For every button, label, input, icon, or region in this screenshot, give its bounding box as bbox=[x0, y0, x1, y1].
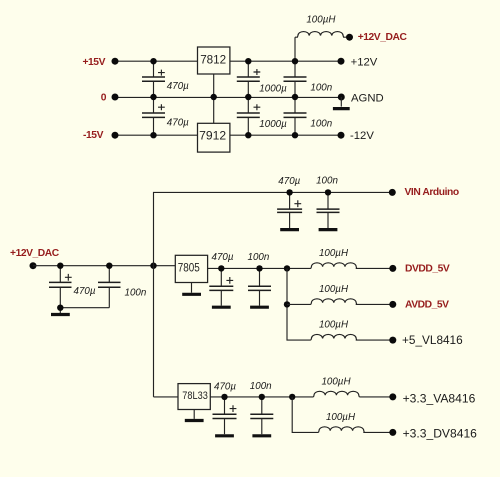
node VIN Arduino terminal bbox=[389, 189, 396, 196]
svg-text:470µ: 470µ bbox=[214, 381, 236, 392]
svg-text:100n: 100n bbox=[250, 381, 272, 392]
inductor L3 100uH (AVDD) bbox=[287, 284, 393, 304]
inductor L2 100uH (DVDD) bbox=[311, 248, 393, 268]
junction C6/-12V rail bbox=[292, 132, 298, 138]
junction C3/+12V rail bbox=[245, 58, 251, 64]
svg-text:100µH: 100µH bbox=[319, 320, 349, 331]
svg-text:+12V_DAC: +12V_DAC bbox=[10, 248, 60, 259]
svg-text:DVDD_5V: DVDD_5V bbox=[405, 264, 450, 275]
capacitor C5 100n (between +12V and 0) bbox=[284, 61, 333, 97]
junction U1-U2 pins/0 rail bbox=[211, 94, 217, 100]
capacitor C14 100n (78L33 out) bbox=[250, 381, 273, 434]
ground below C12 bbox=[250, 306, 269, 309]
wire input rail bbox=[33, 265, 175, 267]
svg-text:470µ: 470µ bbox=[212, 252, 234, 263]
wire 5V distribution trunk bbox=[287, 268, 311, 340]
svg-text:+15V: +15V bbox=[82, 57, 105, 68]
junction C14/3.3V rail bbox=[259, 394, 265, 400]
junction C9/VIN rail bbox=[286, 189, 292, 195]
ground below C10 bbox=[319, 228, 338, 231]
node -12V terminal bbox=[338, 132, 345, 139]
wire 7805 output rail bbox=[208, 267, 311, 269]
ground below C14 bbox=[252, 434, 271, 437]
svg-text:470µ: 470µ bbox=[167, 81, 189, 92]
node +12V_DAC terminal bbox=[346, 34, 353, 41]
regulator U1 7812 bbox=[198, 47, 230, 97]
junction C7-C8 ground node bbox=[57, 305, 63, 311]
junction C8/input rail bbox=[106, 263, 112, 269]
inductor L4 100uH (+5_VL) bbox=[311, 320, 393, 340]
junction L3/AVDD branch bbox=[284, 301, 290, 307]
capacitor C13 470u (78L33 out) bbox=[213, 381, 237, 434]
svg-text:1000µ: 1000µ bbox=[259, 119, 287, 130]
svg-text:100µH: 100µH bbox=[319, 284, 349, 295]
wire +12V rail right of 7812 bbox=[230, 60, 341, 62]
svg-text:100µH: 100µH bbox=[306, 14, 336, 25]
ground below C9 bbox=[280, 228, 299, 231]
svg-text:+12V_DAC: +12V_DAC bbox=[358, 32, 408, 43]
capacitor C8 100n bbox=[60, 266, 146, 308]
junction C5-C6/0 rail bbox=[292, 94, 298, 100]
junction C1-C2/0 rail bbox=[150, 94, 156, 100]
node +3.3_DV8416 terminal bbox=[389, 429, 396, 436]
svg-text:100n: 100n bbox=[316, 176, 338, 187]
node +15V terminal bbox=[112, 58, 119, 65]
capacitor C3 1000u (between +12V and 0) bbox=[237, 61, 287, 97]
junction C7/input rail bbox=[57, 263, 63, 269]
capacitor C9 470u (VIN rail) bbox=[277, 176, 302, 228]
svg-text:+3.3_VA8416: +3.3_VA8416 bbox=[403, 391, 476, 405]
capacitor C12 100n (7805 out) bbox=[248, 252, 272, 306]
svg-text:100µH: 100µH bbox=[319, 248, 349, 259]
svg-text:-15V: -15V bbox=[83, 130, 104, 141]
junction C10/VIN rail bbox=[325, 189, 331, 195]
ground below C11 bbox=[212, 306, 231, 309]
junction C11/5V rail bbox=[218, 265, 224, 271]
svg-text:78L33: 78L33 bbox=[182, 390, 208, 402]
regulator U4 78L33 bbox=[178, 384, 210, 419]
svg-text:7912: 7912 bbox=[199, 128, 226, 142]
junction C5-L1/+12V rail bbox=[292, 58, 298, 64]
wire 78L33 output rail bbox=[210, 396, 313, 398]
node +12V terminal bbox=[338, 58, 345, 65]
ground AGND bbox=[333, 97, 350, 109]
svg-text:100µH: 100µH bbox=[326, 412, 356, 423]
capacitor C7 470u bbox=[49, 266, 96, 313]
node AGND terminal bbox=[338, 94, 345, 101]
svg-text:1000µ: 1000µ bbox=[259, 83, 287, 94]
ground below C13 bbox=[215, 434, 234, 437]
wire +15V rail left bbox=[115, 60, 198, 62]
wire -12V rail right of 7912 bbox=[230, 134, 341, 136]
svg-text:470µ: 470µ bbox=[167, 117, 189, 128]
regulator U3 7805 bbox=[175, 255, 207, 292]
capacitor C6 100n (between 0 and -12V) bbox=[284, 97, 333, 135]
svg-text:470µ: 470µ bbox=[74, 286, 96, 297]
junction C3-C4/0 rail bbox=[245, 94, 251, 100]
svg-text:AVDD_5V: AVDD_5V bbox=[405, 300, 449, 311]
svg-text:100n: 100n bbox=[248, 252, 270, 263]
svg-text:100µH: 100µH bbox=[321, 377, 351, 388]
junction C1/+15V rail bbox=[150, 58, 156, 64]
svg-text:100n: 100n bbox=[310, 118, 332, 129]
svg-text:470µ: 470µ bbox=[278, 176, 300, 187]
svg-text:VIN Arduino: VIN Arduino bbox=[405, 187, 459, 198]
svg-text:+5_VL8416: +5_VL8416 bbox=[402, 333, 463, 347]
svg-text:+12V: +12V bbox=[351, 57, 378, 69]
capacitor C4 1000u (between 0 and -12V) bbox=[237, 97, 287, 135]
node 0 terminal bbox=[112, 94, 119, 101]
node +5_VL8416 terminal bbox=[389, 337, 396, 344]
svg-text:0: 0 bbox=[101, 93, 107, 104]
ground below 78L33 bbox=[185, 419, 204, 422]
svg-text:7812: 7812 bbox=[200, 53, 226, 67]
capacitor C2 470u (between 0 and -15V) bbox=[142, 97, 189, 135]
capacitor C1 470u (between +15V and 0) bbox=[142, 61, 189, 97]
wire 0/AGND rail bbox=[115, 96, 341, 98]
node -15V terminal bbox=[112, 132, 119, 139]
inductor L1 100uH bbox=[295, 14, 346, 61]
node DVDD_5V terminal bbox=[389, 265, 396, 272]
junction C12/5V rail bbox=[256, 265, 262, 271]
junction L5-trunk/3.3V rail bbox=[289, 394, 295, 400]
node +3.3_VA8416 terminal bbox=[389, 393, 396, 400]
wire main trunk vertical bbox=[154, 192, 393, 397]
svg-text:7805: 7805 bbox=[178, 261, 200, 275]
svg-text:AGND: AGND bbox=[351, 93, 384, 105]
svg-text:+3.3_DV8416: +3.3_DV8416 bbox=[403, 427, 478, 441]
junction trunk/input rail bbox=[150, 263, 156, 269]
node +12V_DAC input terminal bbox=[30, 262, 37, 269]
capacitor C10 100n (VIN rail) bbox=[316, 176, 339, 228]
inductor L6 100uH (+3.3_DV) bbox=[319, 412, 393, 432]
junction C4/-12V rail bbox=[245, 132, 251, 138]
inductor L5 100uH (+3.3_VA) bbox=[314, 377, 393, 397]
regulator U2 7912 bbox=[198, 97, 230, 152]
junction C13/3.3V rail bbox=[221, 394, 227, 400]
capacitor C11 470u (7805 out) bbox=[209, 252, 234, 306]
svg-text:-12V: -12V bbox=[350, 130, 374, 142]
wire 78L33 input bbox=[154, 396, 179, 398]
junction C2/-15V rail bbox=[150, 132, 156, 138]
svg-text:100n: 100n bbox=[310, 83, 332, 94]
ground below 7805 bbox=[182, 293, 201, 296]
wire 3.3V trunk bbox=[292, 397, 318, 433]
ground below C7 bbox=[51, 313, 70, 316]
junction L2-trunk/5V rail bbox=[284, 265, 290, 271]
wire -15V rail left bbox=[115, 134, 198, 136]
svg-text:100n: 100n bbox=[125, 287, 147, 298]
node AVDD_5V terminal bbox=[389, 301, 396, 308]
